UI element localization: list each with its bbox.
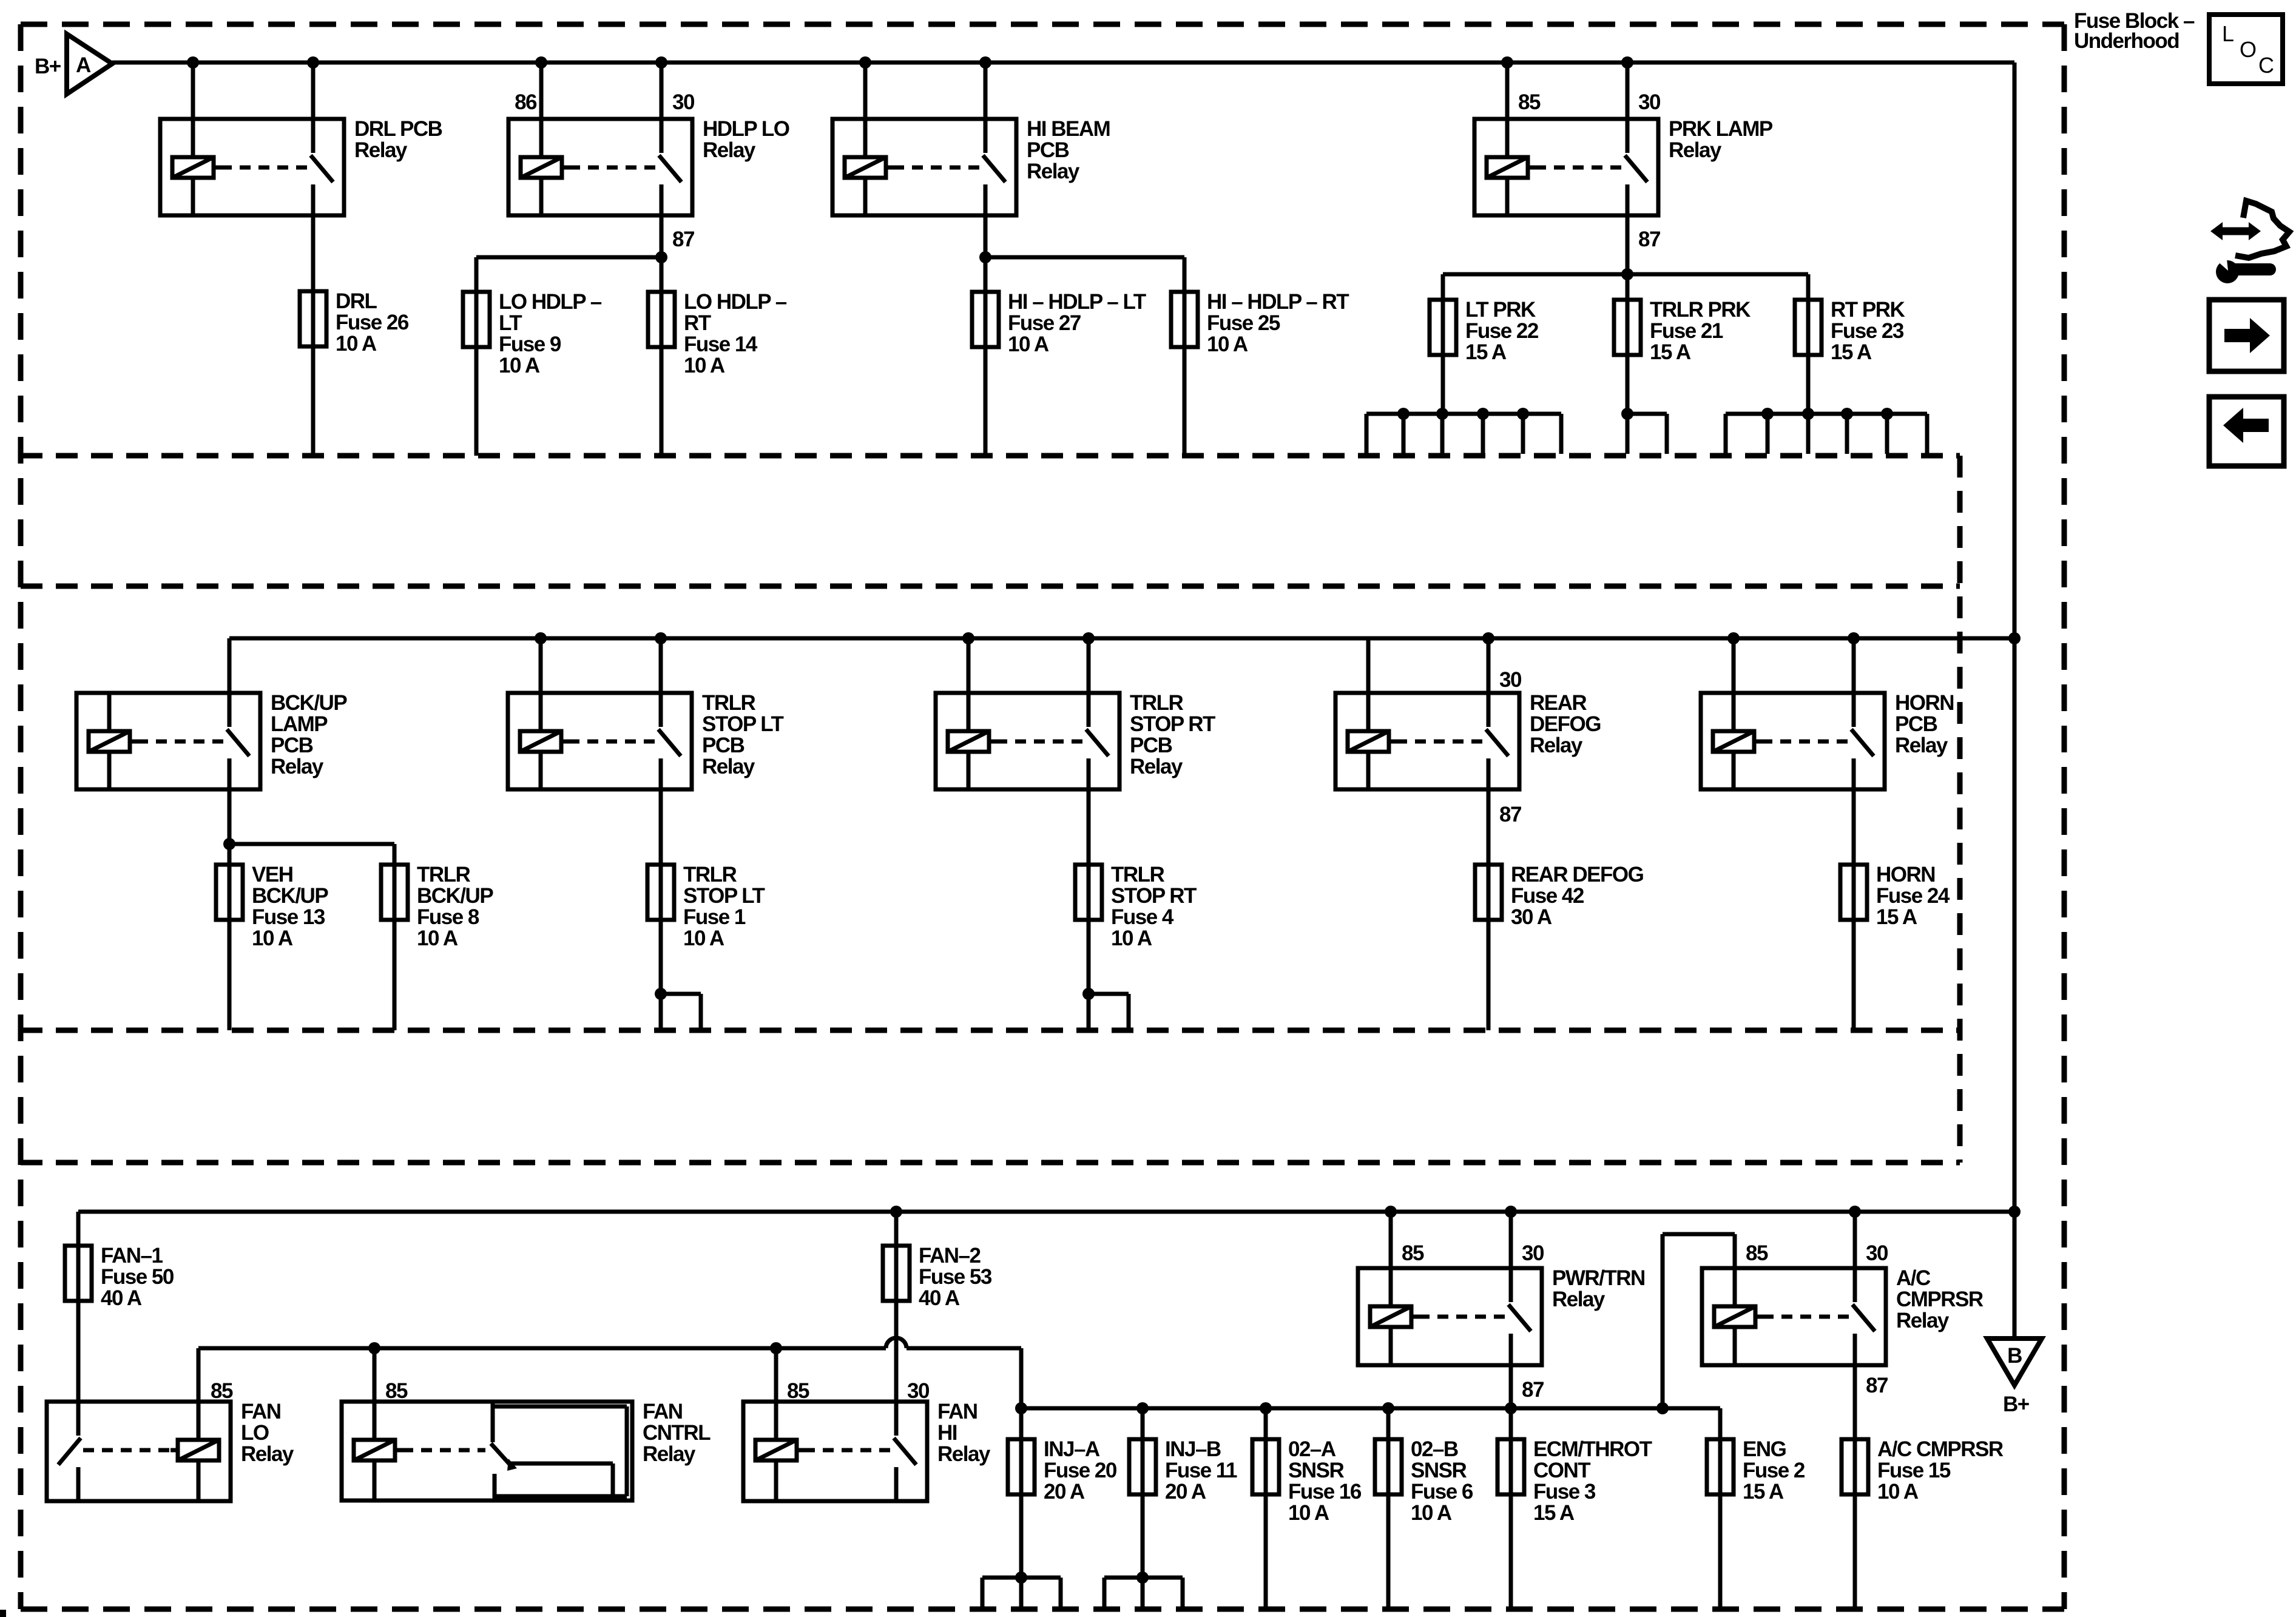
label fuse 3 (1533, 1437, 1652, 1525)
wire - fan coil sub-bus (198, 1338, 1021, 1402)
label fuse 26 (336, 289, 409, 356)
wire - 87 branch to fuse 9 (476, 251, 667, 292)
svg-text:REAR: REAR (1530, 691, 1587, 715)
svg-text:Fuse 16: Fuse 16 (1288, 1480, 1362, 1504)
label 30 FAN HI (907, 1379, 930, 1403)
svg-text:C: C (2258, 53, 2274, 78)
wire - FAN-1 drop (76, 1212, 81, 1246)
relay FAN LO Relay U10 (47, 1402, 231, 1501)
svg-text:Relay: Relay (702, 755, 755, 778)
svg-text:REAR DEFOG: REAR DEFOG (1511, 863, 1644, 886)
svg-text:PCB: PCB (1130, 734, 1172, 757)
svg-text:FAN: FAN (241, 1400, 281, 1423)
relay DRL PCB Relay U1 (160, 119, 344, 215)
wire - DRL relay output to fuse 26 (311, 215, 316, 291)
svg-text:FAN: FAN (937, 1400, 977, 1423)
wire - PRK 30 riser (1621, 56, 1633, 119)
dashed partition - top section bottom edge (21, 453, 1960, 459)
label 85 A/C (1746, 1241, 1768, 1265)
wire - fuse 9 output (474, 347, 479, 456)
svg-text:Relay: Relay (241, 1442, 294, 1466)
wire - PRK 85 riser (1501, 56, 1513, 119)
LOC box icon (2209, 15, 2283, 84)
svg-text:B+: B+ (35, 55, 61, 78)
wire - fuse 15 output (1853, 1494, 1857, 1609)
svg-text:10 A: 10 A (1411, 1501, 1452, 1525)
wire - main vertical feed right side (2013, 62, 2017, 1338)
svg-text:85: 85 (1402, 1241, 1424, 1265)
label REAR DEFOG Relay U8 (1530, 691, 1601, 757)
wire - DRL switch riser (307, 56, 319, 119)
svg-text:A/C: A/C (1896, 1266, 1931, 1290)
svg-text:87: 87 (1499, 803, 1521, 826)
wire - fuse 24 output (1852, 920, 1856, 1030)
wire - BCK/UP switch riser (228, 638, 232, 693)
label fuse 20 (1044, 1437, 1117, 1504)
svg-text:HI – HDLP – RT: HI – HDLP – RT (1207, 290, 1349, 314)
label fuse 42 (1511, 863, 1644, 929)
svg-text:30: 30 (1522, 1241, 1544, 1265)
svg-text:HI BEAM: HI BEAM (1027, 117, 1110, 141)
svg-text:FAN–1: FAN–1 (101, 1244, 163, 1268)
svg-text:40 A: 40 A (919, 1286, 960, 1310)
svg-text:Relay: Relay (1027, 160, 1080, 183)
svg-text:FAN: FAN (643, 1400, 683, 1423)
fuse F3 ECM/THROT CONT 15A (1497, 1439, 1524, 1494)
wire - top B+ bus (112, 61, 2014, 65)
wire - fuse 42 output (1487, 920, 1491, 1030)
svg-text:15 A: 15 A (1876, 905, 1917, 929)
label 87 HDLP LO (672, 228, 694, 251)
wire - TRLR STOP RT coil riser (962, 632, 974, 693)
svg-text:30: 30 (1866, 1241, 1888, 1265)
wire - A/C 85 feed loop (1663, 1234, 1735, 1408)
svg-text:Fuse 13: Fuse 13 (252, 905, 325, 929)
wire - BCK/UP output drop (228, 789, 232, 865)
wire - HDLP LO 87 drop (660, 215, 664, 257)
label 87 PRK (1638, 228, 1660, 251)
svg-text:LO HDLP –: LO HDLP – (684, 290, 787, 314)
label fuse 15 (1877, 1437, 2004, 1504)
fuse F8 TRLR BCK/UP 10A (381, 865, 408, 920)
wire - 87 drop to fuse 14 (660, 257, 664, 292)
svg-text:Relay: Relay (1552, 1288, 1606, 1311)
wire - ENG fuse feed from injector bus (1718, 1408, 1723, 1439)
svg-text:O: O (2240, 37, 2256, 62)
fuse F11 INJ-B 20A (1129, 1439, 1156, 1494)
fuse F14 LO HDLP RT 10A (648, 292, 675, 347)
label fuse 16 (1288, 1437, 1362, 1525)
wire - fuse 8 output (393, 920, 397, 1030)
label TRLR STOP LT PCB Relay U6 (702, 691, 784, 778)
svg-text:10 A: 10 A (336, 332, 377, 356)
svg-text:15 A: 15 A (1465, 340, 1507, 364)
relay A/C CMPRSR Relay U14 (1702, 1268, 1886, 1365)
wire - fuse 53 to FAN HI 30 (894, 1301, 899, 1402)
svg-text:10 A: 10 A (684, 354, 725, 377)
fuse F42 REAR DEFOG 30A (1475, 865, 1502, 920)
dashed partition - step vertical (1957, 456, 1963, 1163)
svg-text:A: A (76, 53, 91, 77)
wire - HI BEAM output drop (984, 215, 988, 292)
svg-text:40 A: 40 A (101, 1286, 142, 1310)
wire - fuse 6 output (1386, 1494, 1391, 1609)
svg-text:BCK/UP: BCK/UP (417, 884, 493, 908)
label fuse 23 (1831, 298, 1905, 364)
fuse F25 HI HDLP RT 10A (1171, 292, 1198, 347)
svg-text:85: 85 (1746, 1241, 1768, 1265)
svg-text:Relay: Relay (937, 1442, 991, 1466)
svg-text:HDLP LO: HDLP LO (703, 117, 789, 141)
svg-text:Underhood: Underhood (2074, 29, 2179, 53)
svg-text:Fuse 6: Fuse 6 (1411, 1480, 1473, 1504)
wire - fuse 21 output (1626, 355, 1630, 414)
connector comb INJ-A outputs (982, 1571, 1061, 1609)
relay HI BEAM PCB Relay U3 (832, 119, 1016, 215)
relay REAR DEFOG Relay U8 (1335, 693, 1519, 789)
svg-text:Relay: Relay (1530, 734, 1583, 757)
wire - HI BEAM switch riser (979, 56, 991, 119)
label PRK LAMP Relay U4 (1669, 117, 1773, 162)
svg-text:85: 85 (385, 1379, 408, 1403)
svg-text:ECM/THROT: ECM/THROT (1533, 1437, 1652, 1461)
svg-text:CMPRSR: CMPRSR (1896, 1288, 1984, 1311)
svg-text:85: 85 (787, 1379, 809, 1403)
wire - fuse 27 output (984, 347, 988, 456)
label HI BEAM PCB Relay U3 (1027, 117, 1110, 183)
svg-text:Relay: Relay (354, 138, 408, 162)
label fuse 11 (1165, 1437, 1237, 1504)
dashed partition - middle section top edge (21, 584, 1960, 589)
label FAN CNTRL Relay (643, 1400, 711, 1466)
wire - 02-B drop (1386, 1408, 1391, 1439)
svg-text:Fuse 27: Fuse 27 (1008, 311, 1081, 335)
right arrow box icon (2209, 300, 2284, 371)
label fuse 1 (683, 863, 765, 950)
connector comb RT PRK outputs (1726, 408, 1927, 454)
svg-text:Relay: Relay (1130, 755, 1183, 778)
wire - PWR/TRN 87 output to injector bus (1509, 1365, 1513, 1408)
svg-text:20 A: 20 A (1044, 1480, 1085, 1504)
label 87 REAR DEFOG (1499, 803, 1521, 826)
svg-text:Fuse 3: Fuse 3 (1533, 1480, 1596, 1504)
label FAN HI Relay U12 (937, 1400, 991, 1466)
svg-text:VEH: VEH (252, 863, 292, 886)
relay PRK LAMP Relay U4 (1474, 119, 1658, 215)
fuse F23 RT PRK 15A (1795, 300, 1822, 355)
svg-text:HI: HI (937, 1421, 957, 1445)
svg-text:Fuse 9: Fuse 9 (499, 333, 561, 356)
relay FAN CNTRL U11 (342, 1402, 632, 1501)
svg-text:PCB: PCB (1027, 138, 1069, 162)
svg-text:CONT: CONT (1533, 1459, 1590, 1482)
wire - fuse 11 output (1141, 1494, 1145, 1578)
wire - HORN switch riser (1848, 632, 1860, 693)
wire - fuse 13 output (228, 920, 232, 1030)
wire - FAN-2 drop (890, 1206, 902, 1246)
label fuse 4 (1111, 863, 1197, 950)
svg-text:TRLR: TRLR (702, 691, 756, 715)
label 85 FAN LO (211, 1379, 233, 1403)
svg-text:87: 87 (1638, 228, 1660, 251)
relay HDLP LO Relay U2 (508, 119, 692, 215)
svg-text:HORN: HORN (1876, 863, 1935, 886)
label fuse 24 (1876, 863, 1950, 929)
svg-text:BCK/UP: BCK/UP (271, 691, 347, 715)
wire - HORN coil riser (1727, 632, 1740, 693)
fuse F27 HI HDLP LT 10A (972, 292, 999, 347)
svg-text:LO HDLP –: LO HDLP – (499, 290, 602, 314)
page artifact bottom left (0, 1610, 6, 1617)
label 30 HDLP LO (672, 90, 695, 114)
wire - sub-bus to injector bus riser (1019, 1348, 1024, 1408)
svg-text:TRLR: TRLR (417, 863, 471, 886)
label 87 PWR/TRN (1522, 1378, 1544, 1402)
svg-text:SNSR: SNSR (1288, 1459, 1344, 1482)
svg-text:10 A: 10 A (417, 927, 458, 950)
label 85 PWR/TRN (1402, 1241, 1424, 1265)
wire - DRL coil riser (187, 56, 199, 119)
wire - PRK 87 branch bus (1443, 268, 1808, 300)
svg-text:LT PRK: LT PRK (1465, 298, 1536, 322)
wire - PRK 87 drop (1626, 215, 1630, 274)
wire - injector bus (1015, 1402, 1720, 1414)
label HORN PCB Relay U9 (1895, 691, 1954, 757)
svg-text:Relay: Relay (1895, 734, 1948, 757)
label 30 A/C (1866, 1241, 1888, 1265)
fuse F1 TRLR STOP LT 10A (647, 865, 674, 920)
svg-text:INJ–A: INJ–A (1044, 1437, 1100, 1461)
svg-text:TRLR: TRLR (1130, 691, 1184, 715)
label Fuse Block - Underhood (2074, 9, 2195, 53)
wire - TRLR STOP LT switch riser (655, 632, 667, 693)
wire - PRK 87 drop to fuse 21 (1626, 274, 1630, 300)
svg-text:PWR/TRN: PWR/TRN (1552, 1266, 1645, 1290)
svg-text:LT: LT (499, 311, 522, 335)
svg-text:02–B: 02–B (1411, 1437, 1458, 1461)
wire - bottom bus (78, 1206, 2021, 1218)
svg-text:LAMP: LAMP (271, 712, 328, 736)
wire - REAR DEFOG 30 riser (1482, 632, 1494, 693)
svg-text:BCK/UP: BCK/UP (252, 884, 328, 908)
wire - HORN output (1852, 789, 1856, 865)
svg-text:Fuse 42: Fuse 42 (1511, 884, 1584, 908)
svg-text:Fuse 23: Fuse 23 (1831, 319, 1904, 343)
label 85 FAN CNTRL (385, 1379, 408, 1403)
wire - TRLR STOP LT coil riser (535, 632, 547, 693)
relay FAN HI Relay U12 (743, 1402, 927, 1501)
fuse F21 TRLR PRK 15A (1614, 300, 1641, 355)
svg-text:Relay: Relay (643, 1442, 696, 1466)
wire - fuse 23 output (1806, 355, 1811, 414)
svg-text:Fuse 50: Fuse 50 (101, 1265, 174, 1289)
relay TRLR STOP RT PCB Relay U7 (936, 693, 1119, 789)
svg-text:10 A: 10 A (1877, 1480, 1919, 1504)
svg-text:Fuse 53: Fuse 53 (919, 1265, 992, 1289)
fuse F26 DRL 10A (300, 291, 326, 346)
label fuse 8 (417, 863, 493, 950)
wire - TRLR STOP LT output (659, 789, 663, 865)
svg-text:15 A: 15 A (1650, 340, 1691, 364)
svg-text:TRLR: TRLR (1111, 863, 1165, 886)
svg-text:02–A: 02–A (1288, 1437, 1336, 1461)
dashed partition - middle section bottom edge (21, 1028, 1960, 1033)
label 87 A/C (1866, 1374, 1888, 1397)
label fuse 53 (919, 1244, 992, 1310)
svg-text:STOP LT: STOP LT (702, 712, 784, 736)
relay BCK/UP LAMP PCB Relay U5 (76, 693, 260, 789)
label fuse 25 (1207, 290, 1349, 356)
svg-text:DRL PCB: DRL PCB (354, 117, 442, 141)
wire - REAR DEFOG output (1487, 789, 1491, 865)
svg-text:PCB: PCB (271, 734, 313, 757)
wire - REAR DEFOG coil riser (1366, 638, 1371, 693)
wire - PWR/TRN 85 riser (1385, 1206, 1397, 1268)
svg-text:10 A: 10 A (1207, 333, 1248, 356)
fuse F9 LO HDLP LT 10A (463, 292, 490, 347)
fuse F50 FAN-1 40A (65, 1246, 92, 1301)
node B - B+ output triangle (1987, 1212, 2042, 1416)
wire - middle bus (229, 632, 2021, 644)
svg-text:Fuse 2: Fuse 2 (1743, 1459, 1805, 1482)
wire - A/C 30 riser (1849, 1206, 1861, 1268)
svg-text:Fuse 26: Fuse 26 (336, 311, 409, 334)
svg-text:Fuse 15: Fuse 15 (1877, 1459, 1951, 1482)
wire - HI BEAM 87 branch to fuse 25 (979, 251, 1184, 292)
wire - HI BEAM coil riser (859, 56, 871, 119)
label fuse 14 (684, 290, 787, 377)
svg-text:Fuse 8: Fuse 8 (417, 905, 479, 929)
svg-text:Fuse 1: Fuse 1 (683, 905, 746, 929)
svg-text:TRLR PRK: TRLR PRK (1650, 298, 1751, 322)
label 85 FAN HI (787, 1379, 809, 1403)
wire - 02-A drop (1264, 1408, 1268, 1439)
svg-text:STOP RT: STOP RT (1130, 712, 1215, 736)
svg-text:Fuse 11: Fuse 11 (1165, 1459, 1237, 1482)
svg-text:87: 87 (1522, 1378, 1544, 1402)
wire - fuse 1 output with stub (655, 920, 701, 1030)
label fuse 6 (1411, 1437, 1473, 1525)
svg-text:15 A: 15 A (1533, 1501, 1575, 1525)
svg-text:85: 85 (1518, 90, 1541, 114)
wire - INJ-B drop (1141, 1408, 1145, 1439)
svg-text:PCB: PCB (1895, 712, 1937, 736)
label HDLP LO Relay U2 (703, 117, 789, 162)
svg-text:RT: RT (684, 311, 711, 335)
fuse F24 HORN 15A (1840, 865, 1867, 920)
svg-text:CNTRL: CNTRL (643, 1421, 711, 1445)
wire - ECM/THROT drop (1509, 1408, 1513, 1439)
node A - B+ feed triangle (35, 34, 112, 94)
wire - fuse 16 output (1264, 1494, 1268, 1609)
svg-text:HORN: HORN (1895, 691, 1954, 715)
svg-text:30: 30 (1499, 668, 1522, 692)
svg-text:B: B (2007, 1344, 2022, 1368)
fuse F16 02-A SNSR 10A (1252, 1439, 1279, 1494)
label fuse 27 (1008, 290, 1146, 356)
label fuse 21 (1650, 298, 1751, 364)
svg-text:B+: B+ (2003, 1393, 2030, 1416)
wire - fuse 25 output (1183, 347, 1187, 456)
dashed partition - bottom section top edge (21, 1160, 1960, 1166)
wire - FAN CNTRL coil riser (373, 1348, 377, 1402)
wire - fuse 50 to FAN LO relay (76, 1301, 81, 1402)
svg-text:10 A: 10 A (1008, 333, 1049, 356)
svg-text:30: 30 (1638, 90, 1661, 114)
svg-text:Fuse 25: Fuse 25 (1207, 311, 1280, 335)
svg-text:85: 85 (211, 1379, 233, 1403)
label fuse 50 (101, 1244, 174, 1310)
svg-text:10 A: 10 A (1111, 927, 1152, 950)
svg-text:86: 86 (515, 90, 537, 114)
wire - fuse 2 output (1718, 1494, 1723, 1609)
fuse F13 VEH BCK/UP 10A (216, 865, 243, 920)
label PWR/TRN Relay U13 (1552, 1266, 1645, 1311)
svg-text:RT PRK: RT PRK (1831, 298, 1905, 322)
svg-text:Fuse 22: Fuse 22 (1465, 319, 1539, 343)
svg-text:Relay: Relay (271, 755, 324, 778)
svg-text:PRK LAMP: PRK LAMP (1669, 117, 1773, 141)
label 30 PRK (1638, 90, 1661, 114)
wire - TRLR STOP RT switch riser (1082, 632, 1095, 693)
wire - TRLR STOP RT output (1087, 789, 1091, 865)
wire - fuse 26 output (311, 346, 316, 456)
svg-text:L: L (2222, 21, 2234, 46)
svg-text:30 A: 30 A (1511, 905, 1552, 929)
svg-text:Fuse 14: Fuse 14 (684, 333, 758, 356)
svg-text:10 A: 10 A (1288, 1501, 1329, 1525)
label FAN LO Relay U10 (241, 1400, 294, 1466)
wire - fuse 22 output (1441, 355, 1445, 414)
label 85 PRK (1518, 90, 1541, 114)
svg-text:Fuse 21: Fuse 21 (1650, 319, 1723, 343)
label DRL PCB Relay U1 (354, 117, 442, 162)
label 86 (515, 90, 537, 114)
label TRLR STOP RT PCB Relay U7 (1130, 691, 1215, 778)
label fuse 9 (499, 290, 602, 377)
svg-text:SNSR: SNSR (1411, 1459, 1467, 1482)
fuse F22 LT PRK 15A (1430, 300, 1456, 355)
svg-text:STOP LT: STOP LT (683, 884, 765, 908)
svg-text:INJ–B: INJ–B (1165, 1437, 1221, 1461)
wire - PWR/TRN 30 riser (1505, 1206, 1517, 1268)
wire - FAN HI coil riser (774, 1348, 778, 1402)
label fuse 22 (1465, 298, 1539, 364)
relay TRLR STOP LT PCB Relay U6 (508, 693, 692, 789)
relay PWR/TRN Relay U13 (1358, 1268, 1542, 1365)
label A/C CMPRSR Relay U14 (1896, 1266, 1984, 1332)
wire - HDLP LO 30 riser (655, 56, 667, 119)
fuse F6 02-B SNSR 10A (1375, 1439, 1402, 1494)
wire - HDLP LO 86 riser (535, 56, 547, 119)
svg-text:20 A: 20 A (1165, 1480, 1206, 1504)
fuse F2 ENG 15A (1707, 1439, 1734, 1494)
label 30 PWR/TRN (1522, 1241, 1544, 1265)
svg-text:Fuse 20: Fuse 20 (1044, 1459, 1117, 1482)
svg-text:15 A: 15 A (1743, 1480, 1784, 1504)
svg-text:10 A: 10 A (252, 927, 293, 950)
svg-text:Relay: Relay (703, 138, 756, 162)
svg-text:PCB: PCB (702, 734, 745, 757)
label fuse 13 (252, 863, 328, 950)
svg-text:FAN–2: FAN–2 (919, 1244, 981, 1268)
svg-text:Relay: Relay (1669, 138, 1722, 162)
fuse F20 INJ-A 20A (1008, 1439, 1035, 1494)
svg-text:LO: LO (241, 1421, 269, 1445)
wire - INJ-A drop (1019, 1408, 1024, 1439)
wire - fuse 14 output (660, 347, 664, 456)
connector comb INJ-B outputs (1104, 1571, 1183, 1609)
